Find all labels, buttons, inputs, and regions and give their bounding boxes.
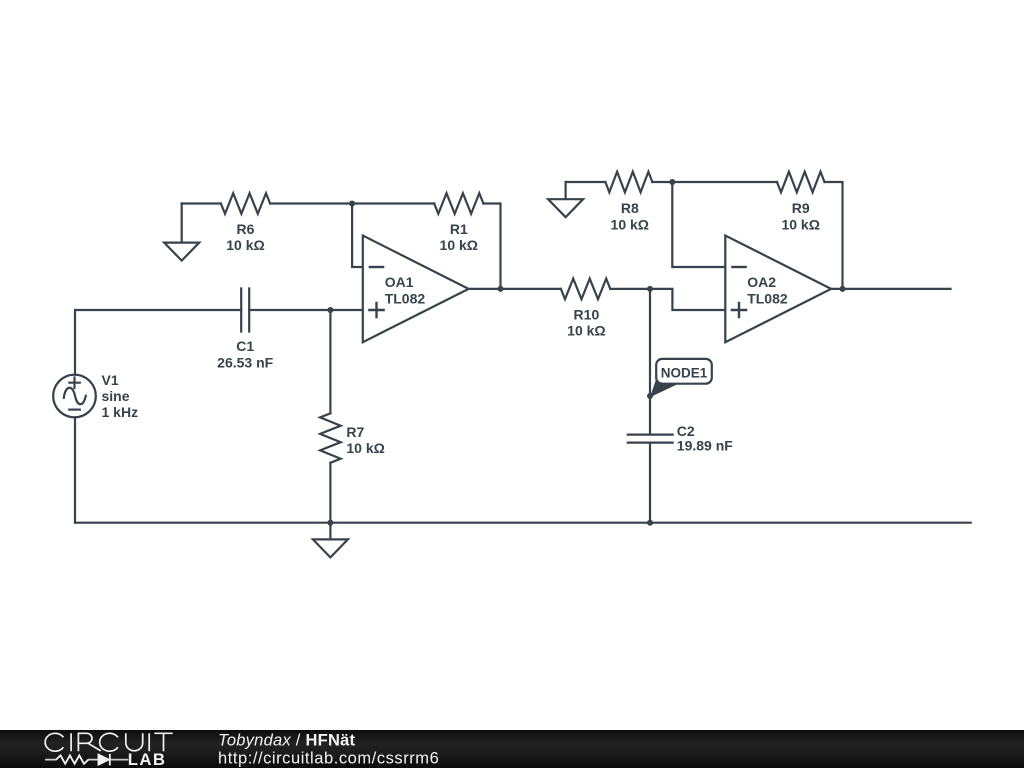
OA2 plus pin mark	[732, 303, 746, 317]
resistor R7	[320, 413, 341, 463]
svg-text:26.53 nF: 26.53 nF	[217, 354, 273, 370]
svg-text:1 kHz: 1 kHz	[102, 404, 139, 420]
resistor R1	[434, 193, 483, 214]
OA2 minus pin mark	[732, 266, 745, 268]
wire junction down to R7	[329, 310, 331, 413]
wire C1 to OA1 plus input	[249, 309, 363, 311]
wire C2 to bottom rail	[649, 444, 651, 523]
CircuitLab logo CIRCUIT	[45, 733, 173, 751]
wire R10 to OA2 plus input jog	[610, 289, 725, 310]
svg-text:10 kΩ: 10 kΩ	[226, 237, 264, 253]
OA2 label	[747, 274, 788, 306]
R10 label	[567, 306, 605, 338]
svg-text:sine: sine	[102, 388, 130, 404]
NODE1 dot	[647, 393, 653, 399]
svg-text:R9: R9	[792, 200, 810, 216]
junction bottom rail at C2	[647, 520, 653, 526]
svg-text:R8: R8	[621, 200, 639, 216]
junction OA1 output	[498, 286, 504, 292]
R9 label	[781, 200, 819, 233]
ground at bottom rail	[313, 523, 348, 558]
svg-text:OA1: OA1	[385, 274, 414, 290]
svg-text:C1: C1	[236, 338, 254, 354]
capacitor C2	[628, 435, 673, 443]
junction OA2 output	[840, 286, 846, 292]
wire OA1 output to R10	[469, 288, 561, 290]
svg-text:http://circuitlab.com/cssrrm6: http://circuitlab.com/cssrrm6	[218, 749, 439, 767]
capacitor C1	[241, 289, 249, 332]
R1 label	[440, 221, 478, 253]
C1 label	[217, 338, 273, 370]
op-amp OA2	[725, 236, 831, 343]
svg-text:R6: R6	[237, 221, 255, 237]
svg-text:V1: V1	[102, 372, 119, 388]
svg-text:TL082: TL082	[385, 290, 426, 306]
wire OA2 output	[831, 288, 950, 290]
junction at feedback node	[349, 201, 355, 207]
ground for R6	[164, 204, 199, 261]
OA1 minus pin mark	[370, 266, 383, 268]
svg-text:10 kΩ: 10 kΩ	[440, 237, 478, 253]
resistor R6	[221, 193, 270, 214]
NODE1 flag box	[656, 359, 712, 384]
svg-text:R10: R10	[574, 306, 600, 322]
wire V1 top to C1	[75, 310, 241, 375]
wire R7 to bottom rail	[329, 463, 331, 523]
OA1 label	[385, 274, 426, 306]
R8 label	[611, 200, 649, 233]
svg-text:10 kΩ: 10 kΩ	[781, 217, 819, 233]
junction at R10/C2 node	[647, 286, 653, 292]
wire ground to R8	[566, 181, 606, 183]
node junction at C1/R7	[327, 307, 333, 313]
wire R8 to R9	[652, 181, 777, 183]
op-amp OA1	[363, 236, 469, 343]
ground for R8	[548, 182, 583, 217]
svg-text:R1: R1	[450, 221, 468, 237]
svg-text:TL082: TL082	[747, 290, 788, 306]
wire node down to C2	[649, 289, 651, 434]
wire down to OA2 minus input	[672, 182, 725, 267]
V1 label	[102, 372, 139, 420]
svg-text:10 kΩ: 10 kΩ	[611, 217, 649, 233]
wire V1 bottom	[74, 417, 76, 522]
OA1 plus pin mark	[369, 303, 383, 317]
wire ground to R6	[182, 202, 221, 204]
wire R1 to output drop	[483, 204, 500, 289]
C2 label	[677, 423, 733, 453]
wire R6 to R1	[270, 202, 434, 204]
voltage source V1	[53, 375, 96, 418]
wire down to OA1 minus input	[352, 204, 363, 268]
svg-text:NODE1: NODE1	[661, 365, 708, 380]
svg-text:LAB: LAB	[128, 750, 167, 768]
svg-text:Tobyndax / HFNät: Tobyndax / HFNät	[218, 732, 356, 750]
wire R9 to output drop	[825, 182, 843, 289]
CircuitLab logo resistor-diode	[45, 754, 128, 765]
NODE1 flag tail	[650, 378, 680, 397]
junction bottom rail at R7	[327, 520, 333, 526]
resistor R9	[777, 172, 825, 193]
svg-text:R7: R7	[346, 424, 364, 440]
svg-text:19.89 nF: 19.89 nF	[677, 437, 733, 453]
junction at OA2 feedback node	[669, 179, 675, 185]
svg-text:OA2: OA2	[747, 274, 776, 290]
bottom rail wire	[75, 522, 971, 524]
svg-text:10 kΩ: 10 kΩ	[567, 323, 605, 339]
svg-text:10 kΩ: 10 kΩ	[346, 440, 384, 456]
resistor R10	[561, 279, 610, 300]
R7 label	[346, 424, 384, 456]
R6 label	[226, 221, 264, 253]
resistor R8	[605, 172, 652, 193]
NODE1 text	[661, 365, 708, 380]
